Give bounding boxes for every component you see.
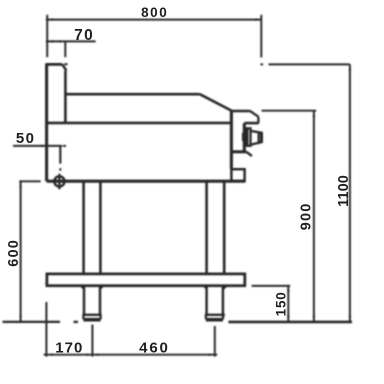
svg-text:150: 150 bbox=[273, 291, 288, 316]
svg-text:70: 70 bbox=[74, 27, 94, 44]
svg-text:600: 600 bbox=[6, 239, 22, 267]
svg-text:460: 460 bbox=[139, 340, 169, 357]
svg-text:170: 170 bbox=[55, 340, 83, 357]
svg-text:1100: 1100 bbox=[336, 175, 352, 207]
svg-text:900: 900 bbox=[298, 203, 314, 231]
svg-text:800: 800 bbox=[141, 5, 168, 20]
svg-text:50: 50 bbox=[16, 130, 36, 147]
